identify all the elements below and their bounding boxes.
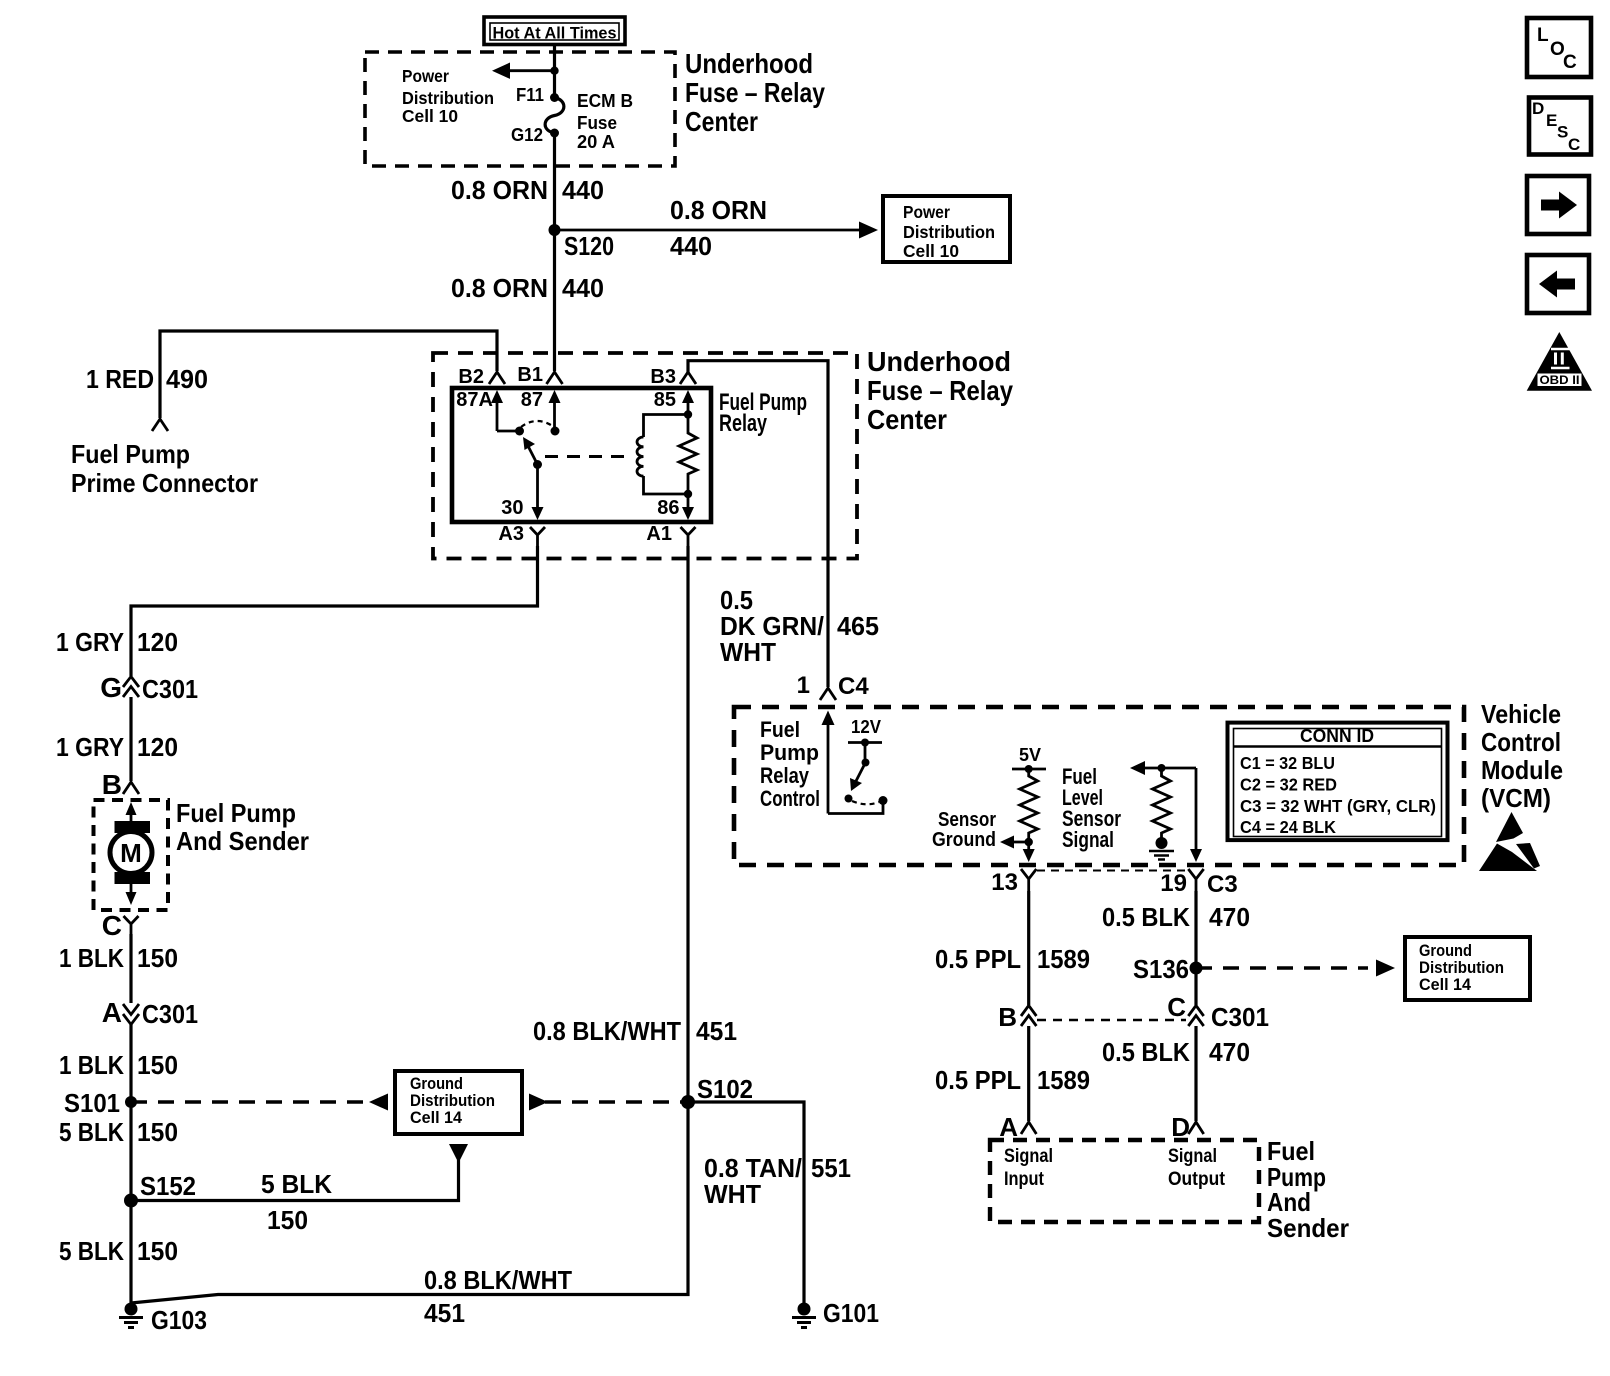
pin A3: [498, 523, 545, 546]
svg-text:D: D: [1171, 1112, 1190, 1142]
svg-text:E: E: [1546, 111, 1557, 130]
pin B of fuel pump: [102, 769, 139, 800]
label: 0.5 BLK 470 (upper): [1102, 902, 1250, 932]
connector C3: pin 19: [1160, 869, 1237, 898]
svg-text:WHT: WHT: [720, 637, 776, 667]
wire: 1 GRY 120 from relay A3 to C301 pin G: [131, 546, 538, 676]
svg-text:0.8 BLK/WHT: 0.8 BLK/WHT: [424, 1265, 572, 1295]
wire: branch to Power Distribution Cell 10 (left arrow): [492, 63, 555, 79]
svg-text:Output: Output: [1168, 1169, 1226, 1190]
motor M: return arrow (down): [126, 884, 137, 905]
pin B3: [650, 366, 696, 388]
VCM driver: arrow up from C4 wire: [822, 711, 888, 814]
svg-text:150: 150: [137, 1236, 178, 1266]
svg-text:470: 470: [1209, 1037, 1250, 1067]
icon: OBD II triangle: [1527, 332, 1592, 391]
svg-text:Relay: Relay: [760, 763, 810, 788]
VCM: wire from sensor-ground node to pin 13 (arrow down): [1023, 842, 1035, 862]
svg-text:C: C: [102, 910, 122, 941]
svg-text:0.8 BLK/WHT: 0.8 BLK/WHT: [533, 1016, 681, 1046]
connector C3: pin 13: [991, 869, 1036, 896]
svg-text:13: 13: [991, 869, 1018, 896]
wire: hot feed from Hot At All Times into fuse box: [553, 45, 556, 97]
svg-text:WHT: WHT: [704, 1179, 761, 1209]
svg-text:30: 30: [501, 497, 523, 519]
label: 0.5 DK GRN/WHT 465: [720, 585, 879, 667]
label: 0.5 BLK 470 (lower): [1102, 1037, 1250, 1067]
svg-text:Pump: Pump: [760, 740, 819, 765]
relay contact 85 (arrow up): [654, 389, 694, 415]
wire: B3 up and over to VCM C4 (0.5 DK GRN/WHT 465): [688, 361, 828, 687]
fuse F11/G12: ECM B Fuse 20 A: [545, 93, 564, 138]
svg-text:1 RED: 1 RED: [86, 364, 154, 394]
connector C301: pin B (double chevron up): [998, 1002, 1036, 1032]
svg-text:5 BLK: 5 BLK: [261, 1169, 332, 1199]
label: 1 GRY 120 (lower): [56, 732, 178, 762]
node S102: [681, 1074, 753, 1109]
svg-text:1 BLK: 1 BLK: [59, 943, 124, 973]
svg-text:0.5 PPL: 0.5 PPL: [935, 944, 1021, 974]
label: 0.8 BLK/WHT 451 (bottom run): [424, 1265, 572, 1328]
svg-text:B: B: [102, 769, 122, 800]
relay switch: 87A leg: [497, 430, 520, 433]
svg-text:C301: C301: [142, 999, 198, 1029]
svg-text:Ground: Ground: [1419, 942, 1472, 960]
relay switch: dashed throw arc: [521, 421, 554, 427]
svg-text:Cell 10: Cell 10: [903, 241, 959, 261]
wire: 1 GRY 120 from C301 to fuel pump pin B: [129, 697, 132, 781]
label: Signal Input: [1004, 1146, 1053, 1190]
ground G103: [119, 1303, 207, 1336]
wire: 5 BLK 150 S101 to S152: [129, 1102, 132, 1201]
svg-text:Hot At All Times: Hot At All Times: [493, 23, 617, 42]
label: Power Distribution Cell 10 (inside fuse box): [402, 66, 494, 126]
svg-text:465: 465: [837, 611, 879, 641]
svg-text:150: 150: [137, 1117, 178, 1147]
motor M: feed arrow (up): [126, 802, 137, 821]
svg-text:5 BLK: 5 BLK: [59, 1117, 124, 1147]
connector C301: pin C (double chevron up): [1167, 992, 1269, 1032]
relay pin 30 (arrow down): [501, 465, 543, 521]
svg-text:85: 85: [654, 389, 676, 411]
svg-text:0.5 PPL: 0.5 PPL: [935, 1065, 1021, 1095]
label: 1 BLK 150 (upper): [59, 943, 178, 973]
svg-text:5 BLK: 5 BLK: [59, 1236, 124, 1266]
svg-text:490: 490: [166, 364, 208, 394]
svg-text:150: 150: [137, 943, 178, 973]
svg-text:Fuel: Fuel: [760, 717, 800, 742]
wire: 0.5 PPL 1589 pin 13 to C301 pin B: [1027, 891, 1030, 1005]
motor M: top brush bar: [115, 821, 151, 833]
motor M: body circle with M: [110, 832, 152, 874]
icon: LOC box: [1527, 18, 1591, 77]
node S101: [64, 1088, 137, 1118]
svg-text:451: 451: [696, 1016, 737, 1046]
label: Signal Output: [1168, 1146, 1226, 1190]
svg-text:Input: Input: [1004, 1169, 1045, 1190]
svg-text:Signal: Signal: [1004, 1146, 1053, 1167]
relay pin 86 (arrow down): [657, 494, 694, 520]
dashed reference: Ground Distribution Cell 14 to S102 (arrow right): [529, 1094, 689, 1111]
svg-text:Control: Control: [760, 786, 820, 811]
svg-text:440: 440: [670, 231, 712, 261]
wire: 0.5 PPL 1589 C301 B to sender pin A: [1027, 1026, 1030, 1121]
relay contact 87A (arrow up): [456, 389, 503, 431]
svg-text:C2 = 32 RED: C2 = 32 RED: [1240, 775, 1337, 795]
svg-text:C3: C3: [1207, 871, 1238, 898]
svg-text:87: 87: [521, 389, 543, 411]
node S152: [124, 1171, 196, 1208]
svg-text:Sender: Sender: [1267, 1213, 1349, 1243]
svg-text:120: 120: [137, 732, 178, 762]
svg-text:S136: S136: [1133, 954, 1189, 984]
relay: Fuel Pump Relay outline: [452, 388, 711, 522]
svg-text:C: C: [1167, 992, 1186, 1022]
svg-text:1: 1: [797, 672, 810, 699]
label: Vehicle Control Module (VCM): [1481, 699, 1563, 813]
svg-text:Fuse – Relay: Fuse – Relay: [867, 375, 1013, 406]
connector C301 pin G (double chevron): [100, 672, 198, 704]
svg-text:G103: G103: [151, 1305, 207, 1335]
svg-text:440: 440: [562, 175, 604, 205]
svg-text:Signal: Signal: [1168, 1146, 1217, 1167]
label: Underhood Fuse - Relay Center (right of relay): [867, 346, 1013, 435]
label: 1 GRY 120 (upper): [56, 627, 178, 657]
table: CONN ID: [1228, 723, 1448, 841]
VCM: 5V pull-up resistor: [1012, 745, 1046, 846]
svg-text:B3: B3: [650, 366, 676, 388]
label: 0.8 ORN 440 (above S120): [451, 175, 604, 205]
label: 0.5 PPL 1589 (upper): [935, 944, 1090, 974]
label: 0.8 BLK/WHT 451: [533, 1016, 737, 1046]
svg-text:Underhood: Underhood: [867, 346, 1011, 377]
pin B1: [517, 364, 562, 386]
svg-text:Cell 14: Cell 14: [410, 1109, 463, 1127]
svg-text:470: 470: [1209, 902, 1250, 932]
svg-text:Prime Connector: Prime Connector: [71, 468, 258, 498]
connector C3: dashed mating line: [1037, 870, 1187, 872]
svg-text:Distribution: Distribution: [410, 1092, 495, 1110]
label: 5 BLK 150 (S152-G103): [59, 1236, 178, 1266]
VCM: sensor ground arrow (left): [932, 809, 1029, 851]
label: Fuel Pump Relay Control: [760, 717, 820, 811]
VCM: wire to pin 19 (arrow down): [1190, 768, 1202, 862]
svg-text:120: 120: [137, 627, 178, 657]
svg-text:B2: B2: [458, 366, 484, 388]
relay switch contact dots: [515, 427, 524, 436]
box: Underhood Fuse-Relay Center (relay, dashed): [433, 353, 857, 559]
svg-text:F11: F11: [516, 85, 544, 105]
svg-text:86: 86: [657, 497, 679, 519]
box: Power Distribution Cell 10: [883, 196, 1010, 262]
svg-text:S101: S101: [64, 1088, 120, 1118]
connector C301 pin A (double chevron down): [102, 997, 198, 1029]
svg-text:C1 = 32 BLU: C1 = 32 BLU: [1240, 753, 1335, 773]
svg-text:A3: A3: [498, 523, 524, 545]
svg-text:S: S: [1557, 123, 1568, 142]
VCM internal switch: 12V supply: [845, 717, 883, 804]
svg-text:C4: C4: [838, 673, 869, 700]
icon: DESC box: [1529, 98, 1591, 155]
svg-text:Cell 10: Cell 10: [402, 106, 458, 126]
svg-text:C301: C301: [142, 674, 198, 704]
ground G101: [792, 1298, 879, 1328]
svg-text:19: 19: [1160, 870, 1187, 897]
icon: ESD warning triangles: [1479, 812, 1540, 871]
svg-text:And Sender: And Sender: [176, 826, 309, 856]
box: Ground Distribution Cell 14 (right): [1405, 937, 1530, 1000]
svg-text:150: 150: [137, 1050, 178, 1080]
svg-text:551: 551: [811, 1153, 851, 1183]
wire: 0.8 BLK/WHT 451 from G103 to S102 (bottom run): [131, 1102, 688, 1303]
svg-text:S120: S120: [564, 231, 614, 261]
pin A1: [646, 523, 695, 546]
VCM: internal bias resistor to ground: [1149, 768, 1174, 860]
icon: arrow left box: [1527, 255, 1589, 313]
label: Fuel Pump And Sender (left unit): [176, 798, 309, 856]
label: Fuel Pump Prime Connector: [71, 439, 258, 498]
svg-text:440: 440: [562, 273, 604, 303]
wire: 0.8 BLK/WHT 451 from relay A1 to S102: [686, 546, 689, 1102]
svg-text:G: G: [100, 672, 122, 703]
box: Underhood Fuse-Relay Center (fuse box, dashed): [365, 52, 675, 166]
wire: 1 RED 490 from relay B2 to Fuel Pump Prime Connector: [160, 331, 497, 418]
svg-text:0.5 BLK: 0.5 BLK: [1102, 1037, 1190, 1067]
svg-text:G101: G101: [823, 1298, 879, 1328]
svg-text:20 A: 20 A: [577, 132, 615, 152]
wire: 1 BLK 150 pump pin C to C301 pin A: [129, 934, 132, 1003]
wire: 0.8 ORN 440 from fuse to S120: [553, 133, 556, 371]
relay dashed actuation link: [545, 455, 632, 458]
svg-text:M: M: [120, 838, 142, 868]
svg-text:Vehicle: Vehicle: [1481, 699, 1561, 729]
label: 0.5 PPL 1589 (lower): [935, 1065, 1090, 1095]
fuel pump and sender: dashed enclosure: [94, 800, 169, 910]
svg-text:Center: Center: [685, 106, 758, 137]
label: Fuel Pump Relay: [719, 389, 807, 437]
svg-text:1589: 1589: [1037, 1065, 1090, 1095]
relay switch arm with arrowhead (movable contact from 30): [523, 437, 542, 469]
wire: 0.5 BLK 470 C301 C to sender pin D: [1194, 1026, 1197, 1121]
node S136: [1133, 954, 1203, 984]
label: 5 BLK 150 (S101-S152): [59, 1117, 178, 1147]
svg-text:1589: 1589: [1037, 944, 1090, 974]
wire: 5 BLK 150 branch S152 to Ground Distribution Cell 14 (arrow down from box): [131, 1144, 468, 1235]
wire: 1 BLK 150 from C301 to S101: [129, 1024, 132, 1102]
wire: 0.5 BLK 470 pin 19 to S136: [1194, 891, 1197, 968]
wire: 0.8 ORN 440 from S120 to Power Distribution Cell 10: [555, 222, 879, 239]
svg-text:Power: Power: [903, 202, 950, 222]
wire: 5 BLK 150 S152 to G103: [129, 1201, 132, 1310]
svg-text:0.8 ORN: 0.8 ORN: [451, 273, 548, 303]
svg-text:Sensor: Sensor: [938, 809, 996, 831]
svg-text:Module: Module: [1481, 755, 1563, 785]
svg-text:451: 451: [424, 1298, 465, 1328]
motor M: bottom brush bar: [115, 872, 151, 884]
label: 1 RED 490: [86, 364, 208, 394]
svg-text:A: A: [102, 997, 122, 1028]
svg-text:(VCM): (VCM): [1481, 783, 1551, 813]
svg-text:D: D: [1532, 99, 1544, 118]
value label: ECM B Fuse 20 A: [577, 91, 633, 152]
connector pin: Fuel Pump Prime Connector: [152, 419, 168, 431]
svg-text:A: A: [999, 1112, 1018, 1142]
relay coil suppression resistor: [679, 410, 697, 498]
svg-text:Underhood: Underhood: [685, 48, 813, 79]
svg-text:Ground: Ground: [932, 829, 996, 851]
sender pin D: [1171, 1112, 1203, 1142]
icon: arrow right box: [1527, 176, 1589, 234]
svg-text:C301: C301: [1211, 1002, 1269, 1032]
connector C301: dashed mating line: [1037, 1019, 1186, 1021]
svg-text:0.5 BLK: 0.5 BLK: [1102, 902, 1190, 932]
box: Fuel Pump And Sender (dashed, signal): [990, 1140, 1259, 1222]
VCM internal ground symbol: [1156, 837, 1168, 849]
svg-text:Cell 14: Cell 14: [1419, 976, 1472, 994]
sender pin A: [999, 1112, 1036, 1142]
svg-text:87A: 87A: [456, 389, 493, 411]
box: Ground Distribution Cell 14 (left): [395, 1071, 522, 1134]
node: junction dot on feed: [550, 67, 558, 75]
dashed reference: S136 to Ground Distribution Cell 14 (arrow right): [1196, 960, 1395, 977]
svg-text:Fuel Pump: Fuel Pump: [176, 798, 296, 828]
VCM: fuel level sense line with arrow left: [1130, 761, 1196, 775]
svg-text:0.8 ORN: 0.8 ORN: [451, 175, 548, 205]
label: 1 BLK 150 (lower): [59, 1050, 178, 1080]
svg-text:Distribution: Distribution: [402, 88, 494, 108]
svg-text:OBD II: OBD II: [1540, 375, 1580, 387]
svg-text:1 GRY: 1 GRY: [56, 627, 124, 657]
svg-text:C: C: [1563, 52, 1577, 73]
svg-text:Distribution: Distribution: [1419, 959, 1504, 977]
svg-text:C4 = 24 BLK: C4 = 24 BLK: [1240, 817, 1336, 837]
svg-text:S152: S152: [140, 1171, 196, 1201]
node S120: [549, 224, 615, 261]
relay coil between 85 and 86: [637, 415, 688, 495]
svg-text:Relay: Relay: [719, 410, 767, 437]
svg-text:C: C: [1568, 135, 1580, 154]
svg-text:150: 150: [267, 1205, 308, 1235]
relay contact 87 (arrow up): [521, 389, 561, 430]
wire: S136 to C301 pin C: [1194, 968, 1197, 1005]
label: Underhood Fuse - Relay Center (top): [685, 48, 825, 137]
label: Fuel Level Sensor Signal: [1062, 764, 1121, 852]
svg-text:L: L: [1537, 25, 1549, 46]
svg-text:Ground: Ground: [410, 1075, 463, 1093]
svg-text:Control: Control: [1481, 727, 1561, 757]
dashed reference: S101 to Ground Distribution Cell 14 (arrow left): [131, 1094, 388, 1111]
pin B2: [458, 366, 505, 388]
title box: Hot At All Times: [484, 17, 625, 45]
svg-text:Center: Center: [867, 404, 947, 435]
label: 0.8 ORN 440 (below S120): [451, 273, 604, 303]
svg-text:Fuse – Relay: Fuse – Relay: [685, 77, 825, 108]
module: Vehicle Control Module (VCM) dashed box: [734, 707, 1464, 865]
svg-text:B1: B1: [517, 364, 543, 386]
svg-text:Signal: Signal: [1062, 827, 1114, 852]
pin C of fuel pump: [102, 910, 139, 941]
svg-text:G12: G12: [511, 125, 543, 145]
svg-text:CONN ID: CONN ID: [1300, 726, 1374, 746]
svg-text:0.8 ORN: 0.8 ORN: [670, 195, 767, 225]
svg-text:ECM B: ECM B: [577, 91, 633, 111]
svg-text:B: B: [998, 1002, 1017, 1032]
label: 0.8 TAN/WHT 551: [704, 1153, 851, 1209]
svg-text:5V: 5V: [1019, 745, 1041, 765]
label: 0.8 ORN 440 (horizontal run): [670, 195, 767, 261]
svg-text:S102: S102: [697, 1074, 753, 1104]
pin 1 of connector C4: [797, 672, 870, 700]
svg-text:Fuel Pump: Fuel Pump: [71, 439, 190, 469]
wire: 0.8 TAN/WHT 551 from S102 to G101: [688, 1102, 804, 1309]
svg-text:Power: Power: [402, 66, 449, 86]
svg-text:Fuse: Fuse: [577, 113, 617, 133]
svg-text:12V: 12V: [851, 717, 881, 737]
label: Fuel Pump And Sender (right): [1267, 1136, 1349, 1243]
svg-text:C3 = 32 WHT (GRY, CLR): C3 = 32 WHT (GRY, CLR): [1240, 796, 1436, 816]
svg-text:A1: A1: [646, 523, 672, 545]
svg-text:1 BLK: 1 BLK: [59, 1050, 124, 1080]
svg-text:Distribution: Distribution: [903, 222, 995, 242]
svg-text:1 GRY: 1 GRY: [56, 732, 124, 762]
